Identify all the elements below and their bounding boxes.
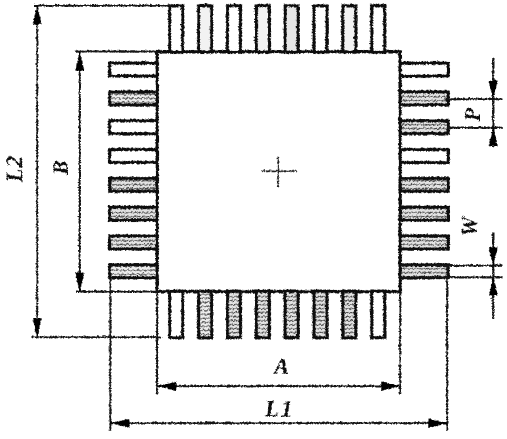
- svg-text:B: B: [48, 160, 72, 175]
- pin bottom 2: [198, 291, 211, 338]
- label W: [456, 215, 481, 236]
- label P: [459, 107, 484, 122]
- dimension line B: [75, 50, 84, 292]
- pin top 5: [284, 5, 297, 52]
- dimension P extension line lower: [446, 126, 502, 128]
- label L2: [1, 154, 26, 183]
- pin left 3: [109, 120, 157, 133]
- pin top 7: [342, 5, 355, 52]
- pin right 1: [400, 63, 448, 76]
- pin bottom 7: [342, 291, 355, 338]
- dimension P extension line upper: [444, 98, 502, 100]
- svg-text:L1: L1: [263, 396, 294, 421]
- label L1: [263, 396, 294, 421]
- dimension L2 extension line bottom: [31, 336, 161, 338]
- pin top 8: [371, 5, 384, 52]
- pin left 1: [109, 63, 157, 76]
- top pins row: [169, 5, 384, 52]
- pin right 2: [400, 91, 448, 104]
- pin bottom 1: [169, 291, 182, 338]
- left pins column: [109, 63, 157, 278]
- pin left 6: [109, 207, 157, 220]
- dimension L1 extension line left: [109, 278, 111, 430]
- center mark cross: [261, 156, 297, 187]
- dimension line L2: [32, 4, 41, 338]
- bottom pins row: [169, 291, 384, 338]
- dimension W extension line upper: [400, 264, 502, 266]
- svg-text:P: P: [459, 107, 484, 122]
- svg-text:L2: L2: [1, 154, 26, 183]
- pin top 2: [198, 5, 211, 52]
- dimension B extension line bottom: [75, 290, 157, 292]
- pin right 4: [400, 149, 448, 162]
- pin top 3: [227, 5, 240, 52]
- svg-text:W: W: [456, 215, 481, 236]
- pin right 6: [400, 207, 448, 220]
- pin left 4: [109, 149, 157, 162]
- pin right 3: [400, 120, 448, 133]
- dimension line P: [488, 57, 497, 147]
- dimension A extension line left: [156, 291, 158, 394]
- pin top 4: [256, 5, 269, 52]
- pin bottom 8: [371, 291, 384, 338]
- pin right 7: [400, 235, 448, 248]
- pin right 5: [400, 178, 448, 191]
- right pins column: [400, 63, 448, 278]
- pin top 1: [169, 5, 182, 52]
- dimension L2 extension line top: [33, 4, 170, 6]
- dimension line W: [488, 232, 497, 318]
- dimension L1 extension line right: [446, 266, 448, 430]
- label B: [48, 160, 72, 175]
- IC package body U1: [157, 51, 400, 291]
- pin left 7: [109, 235, 157, 248]
- dimension line A: [156, 381, 401, 390]
- pin left 2: [109, 91, 157, 104]
- pin top 6: [313, 5, 326, 52]
- dimension B extension line top: [75, 50, 157, 52]
- pin bottom 3: [227, 291, 240, 338]
- pin bottom 4: [256, 291, 269, 338]
- pin left 5: [109, 178, 157, 191]
- pin bottom 5: [284, 291, 297, 338]
- pin left 8: [109, 264, 157, 277]
- dimension W extension line lower: [400, 276, 502, 278]
- pin right 8: [400, 264, 448, 277]
- pin bottom 6: [313, 291, 326, 338]
- dimension A extension line right: [399, 292, 401, 394]
- dimension line L1: [109, 418, 448, 427]
- svg-text:A: A: [272, 353, 289, 378]
- label A: [272, 353, 289, 378]
